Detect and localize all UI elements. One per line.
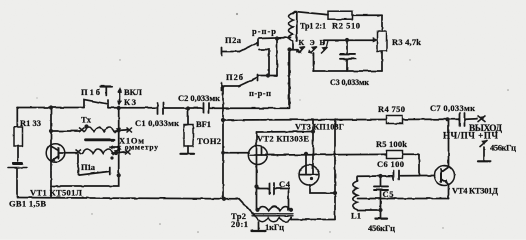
svg-text:VT1 КТ501Л: VT1 КТ501Л <box>30 188 83 198</box>
svg-text:С5: С5 <box>383 189 394 199</box>
svg-text:L1: L1 <box>351 211 361 221</box>
svg-text:456кГц: 456кГц <box>490 143 516 153</box>
svg-text:R5 100k: R5 100k <box>376 139 407 149</box>
svg-text:R4 750: R4 750 <box>378 104 405 114</box>
svg-text:20:1: 20:1 <box>231 219 248 229</box>
svg-text:1кГц: 1кГц <box>265 222 284 232</box>
svg-text:П2б: П2б <box>226 72 243 82</box>
svg-text:R3 4,7k: R3 4,7k <box>392 37 421 47</box>
svg-text:С1 0,033мк: С1 0,033мк <box>135 118 179 128</box>
svg-text:П1б: П1б <box>81 87 100 97</box>
svg-text:456кГц: 456кГц <box>368 223 395 233</box>
svg-text:R1 33: R1 33 <box>20 118 41 128</box>
svg-text:С3 0,033мк: С3 0,033мк <box>330 78 369 87</box>
svg-text:Тх: Тх <box>81 115 92 125</box>
svg-text:R2 510: R2 510 <box>332 21 360 31</box>
svg-text:к омметру: к омметру <box>117 143 158 152</box>
svg-text:ВF1: ВF1 <box>196 119 211 129</box>
svg-text:НЧ/ПЧ +ПЧ: НЧ/ПЧ +ПЧ <box>443 131 498 141</box>
svg-text:ТОН2: ТОН2 <box>197 136 221 146</box>
svg-text:Э: Э <box>310 38 315 47</box>
svg-text:С2 0,033мк: С2 0,033мк <box>178 93 220 103</box>
svg-text:GB1 1,5В: GB1 1,5В <box>9 199 46 209</box>
svg-text:С6 100: С6 100 <box>377 159 404 169</box>
svg-text:VT3 КП103Г: VT3 КП103Г <box>295 123 344 132</box>
svg-text:Тр1 2:1: Тр1 2:1 <box>300 22 326 31</box>
svg-text:П2а: П2а <box>225 35 242 45</box>
svg-text:VT4 КТ301Д: VT4 КТ301Д <box>452 186 498 196</box>
svg-text:р-п-р: р-п-р <box>252 26 276 36</box>
svg-text:К: К <box>299 38 305 47</box>
svg-text:VT2 КП303Е: VT2 КП303Е <box>257 134 309 144</box>
svg-text:С7 0,033мк: С7 0,033мк <box>430 103 475 113</box>
svg-text:С4: С4 <box>279 179 291 189</box>
svg-text:П1а: П1а <box>81 162 96 172</box>
svg-text:Б: Б <box>320 38 325 47</box>
svg-text:ВКЛ: ВКЛ <box>124 87 143 97</box>
svg-text:п-р-п: п-р-п <box>249 88 271 98</box>
